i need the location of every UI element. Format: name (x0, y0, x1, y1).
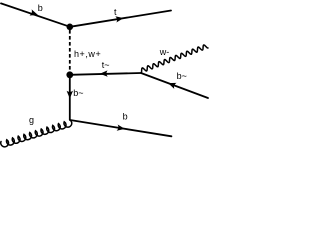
svg-text:g: g (29, 115, 34, 125)
svg-text:b: b (38, 3, 43, 13)
svg-text:h+,w+: h+,w+ (74, 49, 101, 59)
svg-text:b~: b~ (177, 71, 187, 81)
svg-text:b: b (123, 111, 128, 121)
svg-text:b~: b~ (73, 88, 83, 98)
svg-text:w-: w- (159, 47, 170, 57)
svg-text:t~: t~ (102, 60, 110, 70)
